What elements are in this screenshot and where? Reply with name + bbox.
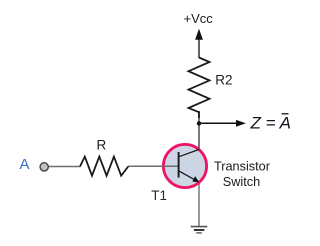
Vcc arrow (up) [198,37,200,58]
wire: output [199,122,237,124]
svg-text:+Vcc: +Vcc [184,11,214,26]
resistor R [80,157,128,176]
svg-text:Switch: Switch [223,175,260,189]
svg-text:R: R [97,138,107,153]
wire: collector vertical (node to transistor) [198,111,200,150]
svg-text:Transistor: Transistor [214,160,271,174]
output arrowhead [236,120,246,127]
wire: emitter vertical (transistor to ground) [198,181,200,227]
transistor Q: emitter lead with arrow [179,171,196,180]
resistor R2 [189,58,210,119]
transistor Q: collector lead [179,149,200,156]
input terminal circle (node A) [40,163,48,171]
transistor switch circle (T1 body) [163,144,206,187]
svg-text:A: A [20,156,30,173]
ground symbol [191,226,208,228]
svg-text:R2: R2 [215,73,232,88]
macron over A [282,113,289,115]
wire: input base wire (terminal to base bar) [48,166,80,168]
transistor Q: base bar [178,152,180,178]
node (collector junction) [197,121,201,125]
svg-text:T1: T1 [151,188,167,203]
svg-text:Z = A: Z = A [250,114,291,133]
